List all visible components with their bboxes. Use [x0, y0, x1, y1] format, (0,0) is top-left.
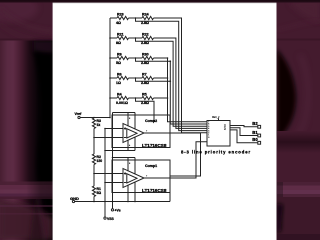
- op-amp U2 triangle: [123, 124, 144, 143]
- op-amp U1 triangle: [123, 169, 144, 188]
- resistor R6: [116, 72, 129, 84]
- node row 1 junction: [135, 17, 137, 19]
- resistor R3: [92, 118, 101, 129]
- wire Vref to rail: [80, 117, 110, 119]
- svg-text:R3: R3: [97, 119, 101, 123]
- svg-text:1k: 1k: [97, 123, 101, 127]
- svg-text:7: 7: [146, 131, 148, 133]
- svg-text:B1: B1: [252, 130, 258, 135]
- svg-text:R23: R23: [117, 12, 124, 16]
- node row 3 tap join: [170, 60, 172, 62]
- power VSS: [104, 217, 115, 221]
- wire row 4 mid: [129, 77, 143, 79]
- svg-text:Comp1: Comp1: [145, 164, 157, 168]
- wire row 5 to bus: [154, 97, 168, 99]
- svg-text:Comp2: Comp2: [145, 119, 157, 123]
- wire bus vertical node3: [168, 58, 208, 122]
- wire row 5 mid: [129, 97, 143, 99]
- svg-text:1Ω: 1Ω: [116, 81, 121, 85]
- wire rail B vertical: [109, 18, 111, 118]
- resistor R1: [92, 186, 101, 197]
- encoder output pin labels: [224, 123, 227, 130]
- svg-text:R24: R24: [142, 12, 149, 16]
- wire row 3 to bus: [154, 57, 168, 59]
- encoder DEC_2 box: [207, 121, 230, 147]
- wire row 3 tap: [136, 58, 171, 61]
- node row 5 join: [167, 97, 169, 99]
- wire row 1 to bus: [154, 18, 208, 133]
- svg-text:4Ω: 4Ω: [116, 21, 121, 25]
- wire U2 output: [144, 133, 201, 202]
- svg-text:150: 150: [97, 159, 103, 163]
- wire U1 -in: [105, 182, 123, 184]
- wire row 5 tap down: [136, 98, 155, 121]
- wire row 2 tap: [136, 38, 208, 126]
- wire row 3 mid: [129, 57, 143, 59]
- svg-text:LT1716CS8: LT1716CS8: [142, 188, 167, 193]
- wire row 4 left: [110, 77, 117, 79]
- wire row 1 left: [110, 17, 117, 19]
- wire bus vertical node4: [170, 61, 207, 124]
- wire row 5 left: [110, 97, 117, 99]
- wire U1 bottom pins: [128, 182, 135, 202]
- op-amp U2 box: [112, 115, 170, 148]
- wire U1 output: [144, 142, 207, 178]
- node B1 pad: [252, 130, 260, 137]
- svg-text:+Vs: +Vs: [115, 209, 121, 213]
- op-amp U2 plus: [124, 127, 126, 129]
- svg-text:VSS: VSS: [107, 217, 115, 221]
- svg-text:R21: R21: [117, 32, 124, 36]
- node Vref: [75, 112, 83, 119]
- wire row 1 mid: [129, 17, 143, 19]
- svg-text:LT1716CS8: LT1716CS8: [142, 143, 167, 148]
- svg-text:8Ω: 8Ω: [116, 41, 121, 45]
- svg-text:0: 0: [208, 137, 209, 139]
- resistor R21: [116, 32, 129, 44]
- svg-text:5Ω: 5Ω: [97, 191, 102, 195]
- resistor R22: [141, 32, 154, 44]
- svg-text:B2: B2: [252, 121, 258, 126]
- wire chain R2-R1: [93, 165, 95, 187]
- wire row 4 tap: [136, 78, 171, 81]
- wire row 4 to bus: [154, 77, 168, 79]
- node row 2 junction: [135, 37, 137, 39]
- op-amp U2 minus: [124, 137, 126, 139]
- svg-text:A2 A1: A2 A1: [224, 123, 227, 130]
- svg-text:R4: R4: [117, 92, 122, 96]
- wire output B1: [230, 128, 258, 136]
- svg-text:R1: R1: [97, 187, 101, 191]
- svg-text:R2: R2: [97, 155, 101, 159]
- node B0 pad: [252, 137, 260, 144]
- resistor R2: [92, 154, 102, 165]
- resistor R23: [116, 12, 129, 24]
- wire U2 top pins: [113, 113, 136, 130]
- svg-text:8-3 line priority encoder: 8-3 line priority encoder: [181, 149, 251, 154]
- svg-text:7: 7: [146, 176, 148, 178]
- node chain comp1: [93, 173, 95, 175]
- node chain comp2: [93, 137, 95, 139]
- svg-text:Vref: Vref: [75, 112, 83, 116]
- resistor R4: [116, 92, 129, 104]
- encoder input pin labels: [208, 122, 209, 139]
- resistor R9: [116, 52, 129, 64]
- wire chain R1-gnd: [93, 197, 95, 202]
- node row 4 tap join: [170, 80, 172, 82]
- wire row 1 tap: [136, 18, 208, 131]
- wire output B2: [230, 126, 258, 127]
- node row 5 junction: [135, 97, 137, 99]
- ground: [70, 196, 79, 202]
- wire encoder vcc stub: [218, 118, 220, 120]
- resistor R30: [141, 52, 154, 64]
- svg-text:R6: R6: [117, 72, 122, 76]
- power +Vs: [111, 209, 120, 213]
- resistor R7: [141, 72, 154, 84]
- wire row 2 left: [110, 37, 117, 39]
- wire output B0: [230, 130, 258, 143]
- wire U2 bottom pins: [105, 137, 135, 151]
- svg-text:R9: R9: [117, 52, 122, 56]
- wire chain R3-R2: [93, 129, 95, 155]
- wire U1 top pins: [113, 158, 136, 175]
- node row 4 join: [167, 77, 169, 79]
- node B2 pad: [252, 121, 260, 128]
- op-amp U2 inner symbol: [127, 129, 137, 138]
- svg-text:R5: R5: [142, 92, 147, 96]
- op-amp U1 minus: [124, 182, 126, 184]
- svg-text:R22: R22: [142, 32, 149, 36]
- node row 3 join: [167, 57, 169, 59]
- svg-text:8: 8: [129, 163, 131, 165]
- node row 3 junction: [135, 57, 137, 59]
- svg-text:R30: R30: [142, 52, 149, 56]
- wire row 3 left: [110, 57, 117, 59]
- wire rail A vertical: [104, 129, 106, 218]
- op-amp U1 box: [112, 160, 170, 193]
- wire row 2 mid: [129, 37, 143, 39]
- svg-text:5Ω: 5Ω: [116, 61, 121, 65]
- svg-text:0.001Ω: 0.001Ω: [116, 101, 128, 105]
- op-amp U1 inner symbol: [127, 174, 137, 183]
- svg-text:B0: B0: [252, 137, 258, 142]
- svg-text:8: 8: [129, 118, 131, 120]
- svg-text:R7: R7: [142, 72, 147, 76]
- resistor R5: [141, 92, 154, 104]
- wire U2 +in: [105, 128, 123, 130]
- wire supply +Vs vertical: [112, 113, 114, 209]
- wire row 2 to bus: [154, 38, 208, 128]
- wire U1 +in: [94, 173, 123, 175]
- node row 4 junction: [135, 77, 137, 79]
- resistor R24: [141, 12, 154, 24]
- wire U2 -in: [94, 137, 123, 139]
- wire ground rail: [75, 201, 170, 203]
- svg-text:4: 4: [129, 145, 131, 147]
- op-amp U1 plus: [124, 172, 126, 174]
